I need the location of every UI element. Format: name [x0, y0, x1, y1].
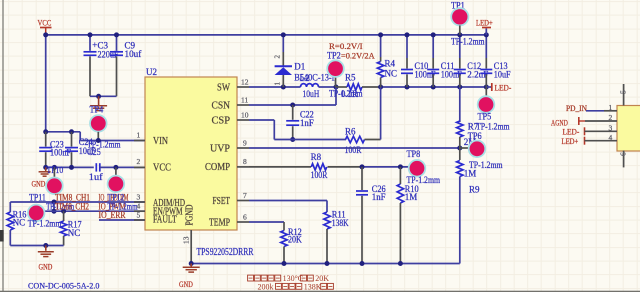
svg-text:1uf: 1uf	[89, 172, 103, 182]
wire UVP line	[249, 147, 460, 149]
svg-text:R4: R4	[385, 59, 396, 69]
svg-text:100nF: 100nF	[441, 70, 462, 80]
svg-text:LED-: LED-	[495, 82, 512, 92]
svg-text:NC: NC	[385, 68, 398, 78]
svg-text:138K: 138K	[332, 218, 349, 228]
svg-text:1nF: 1nF	[300, 118, 314, 128]
svg-text:10: 10	[241, 110, 249, 119]
wire VCC pin2	[100, 166, 145, 168]
svg-text:TP-1.2mm: TP-1.2mm	[476, 121, 510, 131]
svg-text:TP2: TP2	[327, 51, 341, 61]
wire LED- rail	[381, 86, 487, 88]
svg-text:2: 2	[137, 157, 141, 166]
svg-text:CON-DC-005-5A-2.0: CON-DC-005-5A-2.0	[28, 281, 99, 291]
svg-text:8: 8	[243, 157, 247, 166]
svg-text:1: 1	[274, 82, 282, 86]
svg-text:PD_IN: PD_IN	[566, 103, 587, 113]
svg-text:13: 13	[182, 236, 191, 244]
wire VCC left drop	[45, 35, 47, 132]
svg-text:9: 9	[243, 138, 247, 147]
wire ADIM row	[10, 201, 145, 203]
svg-text:VCC: VCC	[153, 163, 171, 174]
svg-text:100R: 100R	[345, 145, 362, 155]
svg-text:GND: GND	[32, 179, 46, 188]
svg-text:IO_ERR: IO_ERR	[99, 210, 126, 220]
svg-text:FAULT: FAULT	[153, 215, 177, 226]
inductor L2	[301, 84, 319, 87]
ground left rail	[45, 167, 47, 171]
resistor R6	[346, 136, 365, 142]
svg-text:D1: D1	[294, 62, 305, 72]
svg-text:R8: R8	[311, 152, 322, 162]
testpoint TP10	[53, 167, 55, 177]
svg-text:1nF: 1nF	[372, 192, 386, 202]
svg-text:5: 5	[619, 90, 628, 94]
svg-text:12: 12	[241, 77, 249, 86]
svg-text:=0.2V/2A: =0.2V/2A	[341, 52, 375, 61]
wire FSET	[249, 200, 327, 202]
ground bottom left	[45, 246, 47, 251]
sheet border bottom strip	[0, 291, 640, 292]
wire CSN drop	[335, 87, 337, 105]
capacitor C24	[71, 132, 73, 147]
wire EN/PWM row	[36, 210, 145, 212]
wire PD_IN pin1	[586, 110, 604, 112]
svg-text:COMP: COMP	[205, 162, 230, 173]
svg-text:LED+: LED+	[476, 17, 493, 27]
wire TEMP	[249, 221, 284, 223]
pin 13 PGND stub	[190, 230, 192, 264]
svg-text:CSP: CSP	[212, 115, 231, 126]
wire CSP route	[249, 119, 274, 121]
resistor R8	[311, 164, 327, 170]
svg-text:TEMP: TEMP	[209, 217, 230, 228]
testpoint TP6	[460, 147, 469, 149]
wire bottom gnd rail	[191, 263, 460, 265]
testpoint TP1	[451, 8, 468, 25]
svg-text:138K: 138K	[304, 282, 322, 291]
svg-text:200k: 200k	[258, 282, 274, 291]
capacitor C22	[292, 105, 294, 120]
junction bus-VCC	[43, 32, 48, 37]
testpoint TP5	[485, 87, 487, 96]
wire row bridge	[53, 202, 55, 211]
svg-text:VIN: VIN	[153, 136, 168, 147]
capacitor C25	[95, 163, 97, 171]
svg-text:0.1R: 0.1R	[341, 89, 358, 99]
svg-text:SW: SW	[217, 82, 230, 93]
svg-text:TP5: TP5	[478, 111, 492, 121]
capacitor C26	[361, 167, 363, 190]
svg-text:TP-1.2mm: TP-1.2mm	[28, 218, 62, 228]
wire SW node	[249, 86, 301, 88]
resistor R12	[281, 231, 287, 247]
svg-text:TP4: TP4	[90, 105, 104, 115]
resistor R11	[324, 212, 330, 229]
svg-text:NC: NC	[68, 228, 81, 238]
svg-text:TIM8_CH2: TIM8_CH2	[55, 201, 89, 211]
svg-text:100R: 100R	[311, 170, 328, 180]
svg-text:6: 6	[243, 212, 247, 221]
wire bottom left gnd	[10, 245, 63, 247]
svg-text:C25: C25	[87, 147, 101, 157]
svg-text:R5: R5	[345, 72, 356, 82]
resistor R9	[459, 148, 461, 160]
svg-text:GND: GND	[179, 279, 193, 289]
svg-text:2.2uF: 2.2uF	[467, 70, 488, 80]
testpoint TP8	[409, 160, 426, 177]
capacitor C23	[45, 132, 47, 147]
svg-text:7: 7	[243, 191, 247, 200]
wire VIN to pin1	[46, 131, 80, 133]
svg-text:LED-: LED-	[563, 127, 580, 137]
svg-text:PGND: PGND	[185, 205, 196, 226]
resistor R16	[9, 202, 11, 212]
wire gnd rail left	[46, 166, 94, 168]
resistor R17	[63, 211, 65, 221]
op-amp U2 TPS922052 body	[145, 77, 237, 230]
pin stubs U2 left	[134, 140, 145, 142]
capacitor C13	[485, 35, 487, 58]
svg-text:5: 5	[137, 211, 141, 220]
svg-text:4: 4	[137, 202, 141, 211]
svg-text:GND: GND	[39, 262, 53, 272]
pin stubs U2 right	[237, 86, 249, 88]
svg-text:4: 4	[609, 133, 613, 142]
ground below C3 C9	[98, 96, 100, 105]
svg-text:NC: NC	[13, 218, 26, 228]
svg-text:UVP: UVP	[210, 143, 230, 154]
svg-text:TPS922052DRRR: TPS922052DRRR	[197, 247, 254, 258]
svg-text:130°C: 130°C	[283, 274, 304, 283]
svg-text:CSN: CSN	[212, 100, 231, 111]
capacitor C10	[406, 35, 408, 58]
svg-text:TP-1.2mm: TP-1.2mm	[451, 36, 485, 46]
connector pin 5	[623, 84, 625, 106]
svg-text:VCC: VCC	[38, 18, 52, 28]
svg-text:11: 11	[241, 95, 248, 104]
svg-text:FSET: FSET	[213, 196, 231, 207]
svg-text:2: 2	[609, 113, 613, 122]
note thermal chinese line1	[248, 275, 254, 281]
connector pin 6	[623, 151, 625, 168]
wire VIN top bus	[46, 34, 487, 36]
svg-text:10uF: 10uF	[494, 70, 511, 80]
power port LED+	[485, 28, 487, 35]
testpoint TP11	[28, 205, 45, 222]
resistor R5	[336, 86, 347, 88]
wire CSP up to LED- rail	[380, 87, 382, 140]
svg-text:1M: 1M	[464, 168, 477, 178]
svg-text:3: 3	[609, 123, 613, 132]
wire COMP line	[249, 166, 311, 168]
svg-text:6: 6	[619, 152, 628, 156]
ground main	[190, 264, 192, 267]
resistor R10	[399, 167, 401, 184]
testpoint TP4	[90, 115, 107, 132]
svg-text:LED+: LED+	[562, 136, 579, 146]
wire COMP after R8	[362, 166, 409, 168]
svg-text:TP11: TP11	[29, 193, 46, 203]
svg-text:U2: U2	[146, 67, 157, 77]
connector J1 body	[617, 106, 640, 152]
resistor R4	[380, 35, 382, 57]
power port LED-	[486, 86, 491, 88]
svg-text:10uH: 10uH	[303, 89, 320, 99]
svg-text:100nF: 100nF	[50, 148, 71, 158]
capacitor C3	[89, 35, 91, 51]
testpoint TP2	[335, 77, 337, 87]
capacitor C11	[432, 35, 434, 58]
svg-text:1: 1	[137, 131, 141, 140]
svg-text:R9: R9	[469, 184, 480, 194]
svg-text:10uf: 10uf	[125, 49, 142, 59]
svg-text:20K: 20K	[288, 235, 302, 245]
svg-text:1M: 1M	[405, 192, 418, 202]
testpoint TP12	[115, 167, 117, 175]
diode D1	[282, 35, 284, 52]
sheet border left	[2, 0, 4, 292]
wire L2 to R5	[319, 86, 337, 88]
resistor R7	[459, 87, 461, 122]
svg-text:R6: R6	[345, 126, 356, 136]
svg-text:2: 2	[274, 55, 282, 59]
capacitor C12	[459, 35, 461, 58]
svg-text:TP8: TP8	[407, 149, 421, 159]
svg-text:1: 1	[609, 103, 613, 112]
wire C3-C9 bottom join	[90, 95, 117, 97]
svg-text:3: 3	[137, 193, 141, 202]
wire FAULT row	[99, 219, 145, 221]
capacitor C9	[116, 35, 118, 51]
